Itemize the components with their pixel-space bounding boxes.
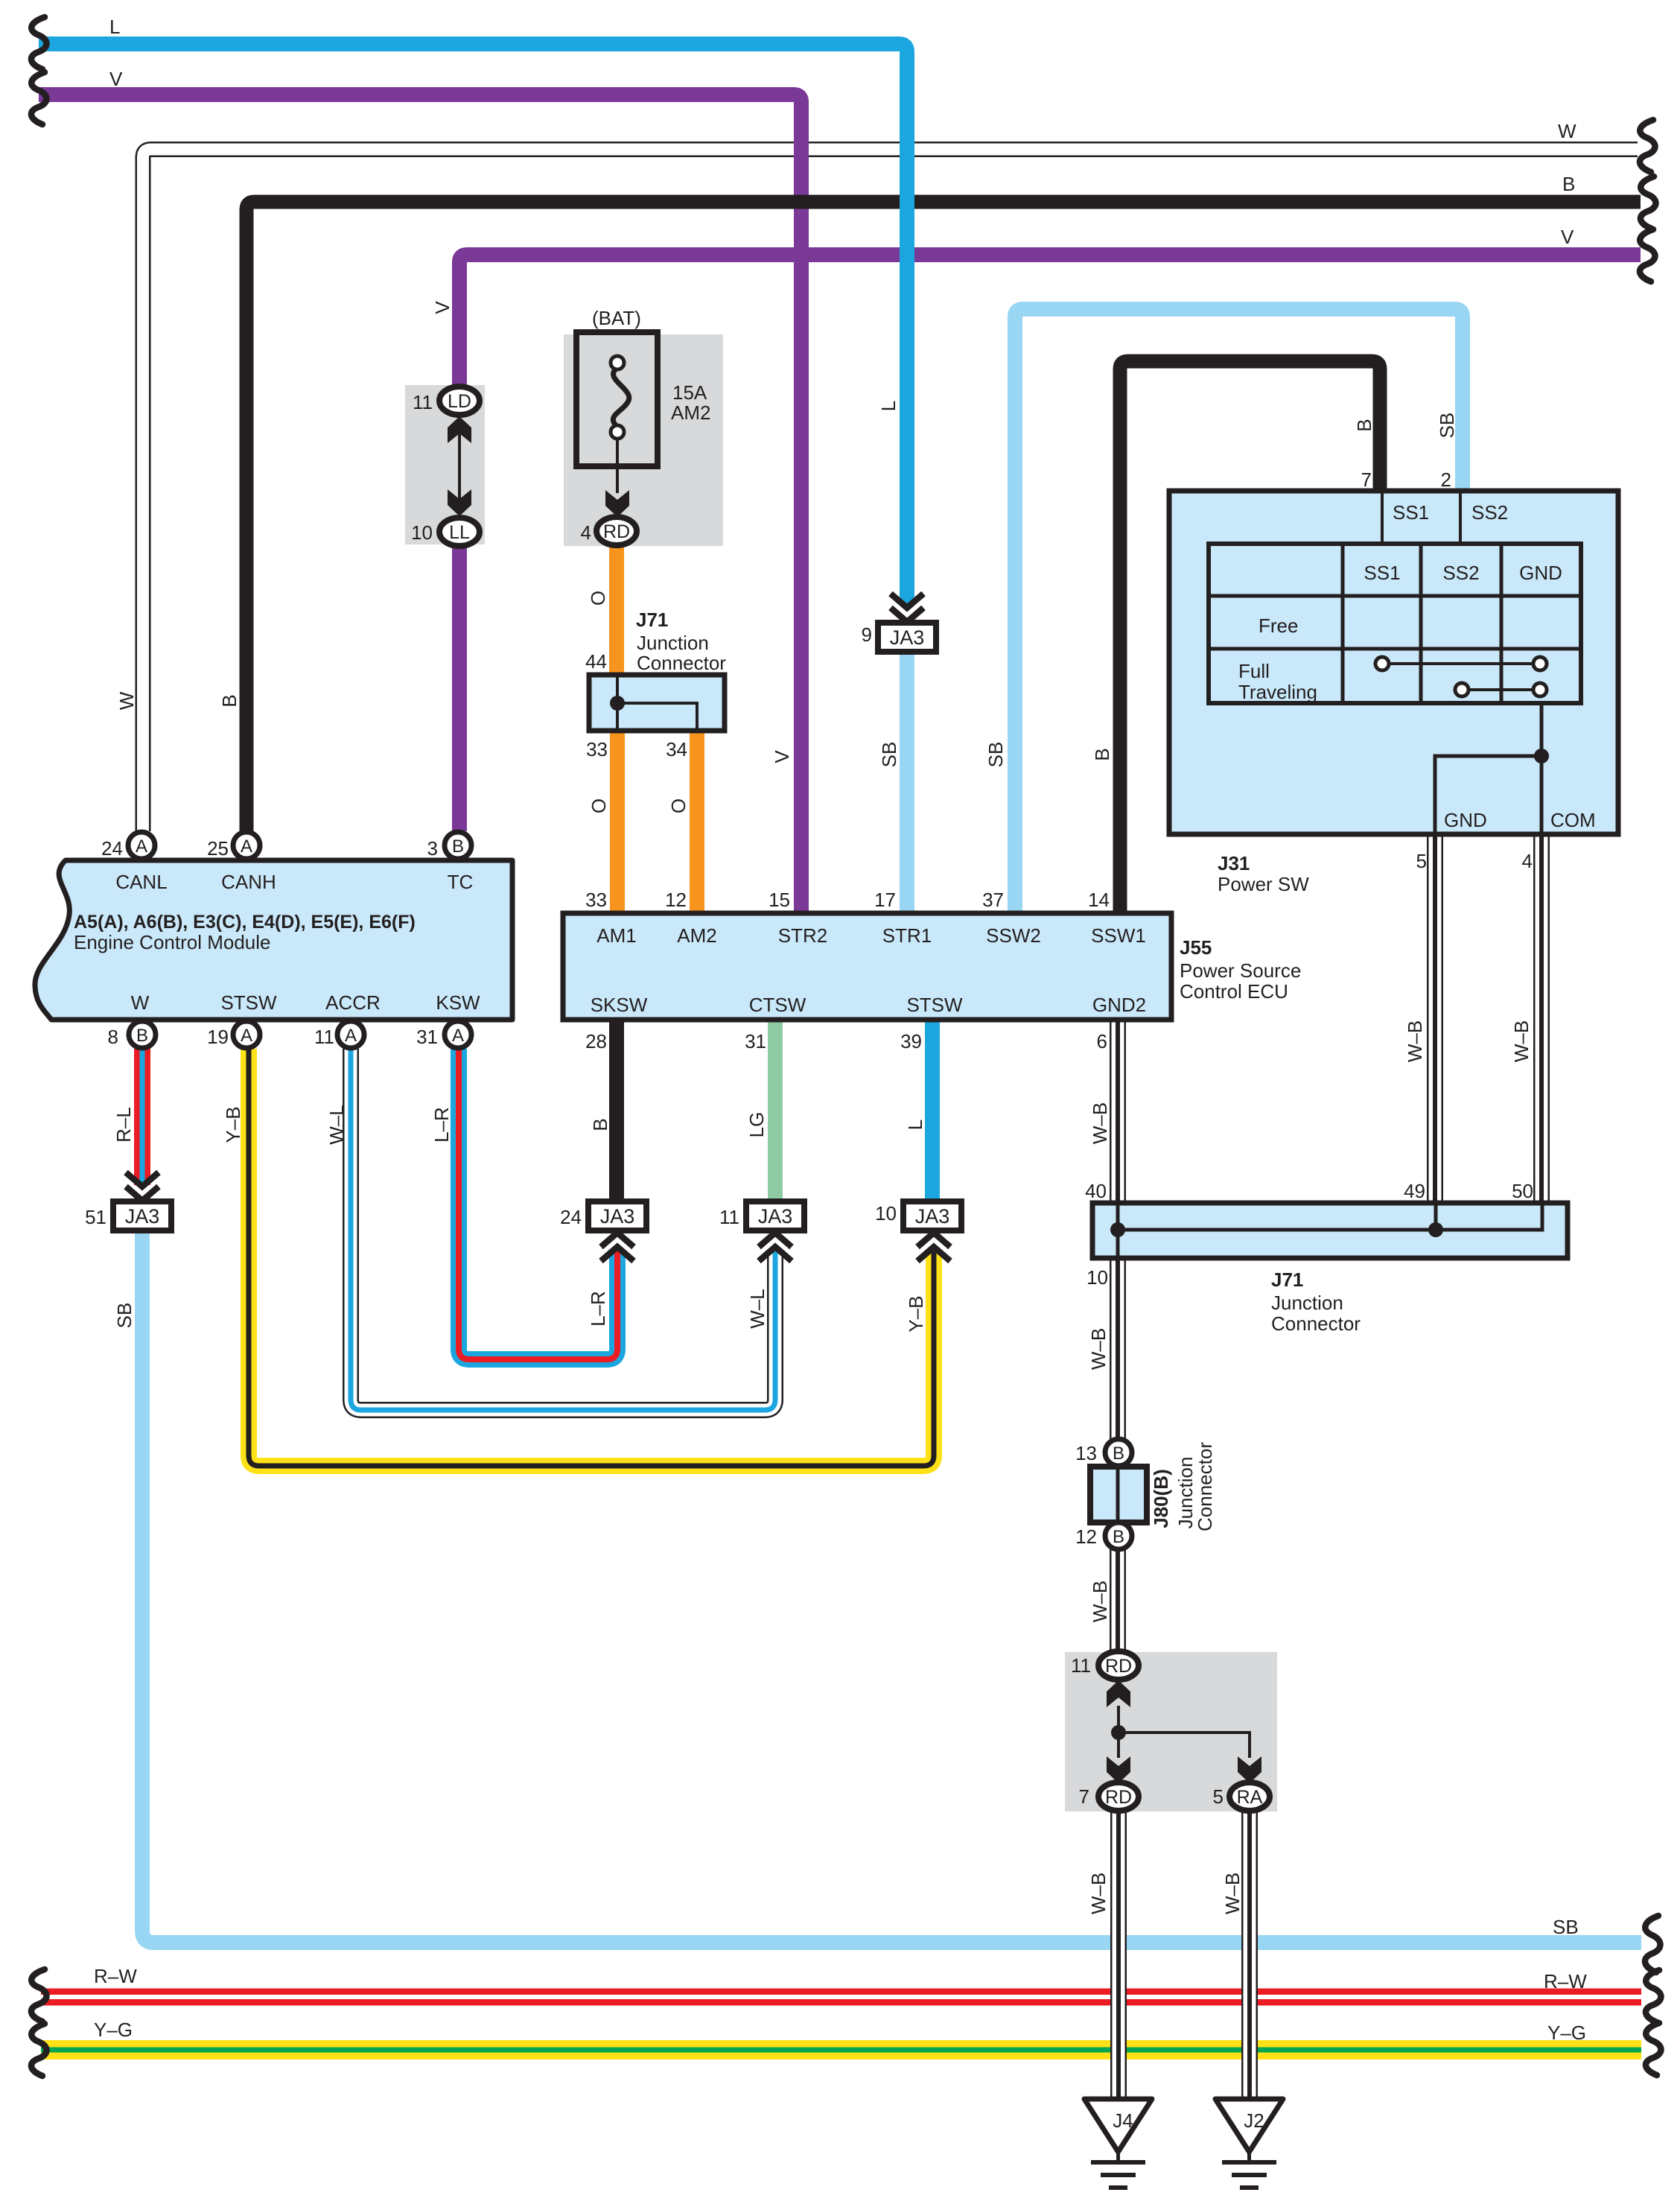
J31 internal wire to GND: [1435, 756, 1541, 834]
svg-text:31: 31: [745, 1030, 766, 1052]
svg-text:RA: RA: [1237, 1787, 1263, 1808]
svg-text:O: O: [587, 591, 609, 606]
svg-text:11: 11: [413, 391, 433, 413]
svg-text:A: A: [241, 1026, 252, 1046]
connector JA3 51 box: [113, 1201, 171, 1230]
ground J4 hatching: [1116, 2152, 1120, 2162]
arrow down to RD 7: [1107, 1756, 1130, 1783]
arrow up to RD 11: [1107, 1680, 1130, 1707]
wire W-B RD 7 to ground J4: [1110, 1811, 1127, 2099]
wire V purple horizontal to right break and down to LD: [459, 255, 1641, 388]
svg-text:SS2: SS2: [1471, 501, 1508, 524]
svg-text:Control ECU: Control ECU: [1180, 980, 1288, 1003]
svg-text:Power SW: Power SW: [1218, 873, 1309, 895]
wire O orange J71 pin 34 to J55 AM2: [690, 732, 704, 912]
arrow into JA3 11: [759, 1247, 792, 1261]
svg-text:R–W: R–W: [1544, 1970, 1587, 1992]
svg-text:SS2: SS2: [1442, 562, 1479, 584]
J31 pin stub SS1: [1381, 493, 1384, 546]
svg-text:CANH: CANH: [221, 871, 276, 893]
svg-text:7: 7: [1361, 469, 1372, 491]
J31 contact line SS2-GND with open circles: [1462, 688, 1540, 691]
svg-text:14: 14: [1088, 889, 1110, 911]
svg-text:V: V: [1561, 226, 1574, 248]
svg-text:39: 39: [900, 1030, 922, 1052]
ECM pin 24 A: [128, 832, 155, 859]
svg-text:13: 13: [1075, 1442, 1097, 1464]
svg-text:B: B: [1113, 1444, 1124, 1464]
svg-text:RD: RD: [1105, 1656, 1132, 1677]
arrow into JA3 10: [917, 1247, 950, 1261]
connector JA3 9 box: [878, 623, 936, 652]
wire Y-B loop ECM pin 19 to JA3 10 arrow: [249, 1049, 934, 1466]
svg-text:CTSW: CTSW: [749, 994, 806, 1016]
svg-text:6: 6: [1097, 1030, 1107, 1052]
svg-text:W–B: W–B: [1221, 1873, 1244, 1914]
arrow up to LD: [448, 416, 471, 443]
svg-text:W: W: [131, 991, 150, 1014]
svg-text:15: 15: [769, 889, 790, 911]
svg-text:W–B: W–B: [1510, 1020, 1533, 1062]
svg-text:L–R: L–R: [587, 1291, 609, 1327]
svg-text:O: O: [588, 798, 610, 813]
wire W-B J71 pin 10 down through J80(B) to RD 11: [1110, 1259, 1126, 1651]
svg-text:Power Source: Power Source: [1180, 959, 1301, 982]
ECM pin 11 A: [337, 1021, 364, 1048]
svg-text:CANL: CANL: [115, 871, 167, 893]
svg-text:B: B: [1353, 419, 1375, 431]
break mark V left: [31, 72, 47, 124]
svg-text:49: 49: [1404, 1180, 1425, 1202]
arrow into JA3 9: [891, 594, 923, 608]
svg-text:V: V: [431, 301, 454, 314]
svg-text:4: 4: [1522, 850, 1533, 872]
connector JA3 10 box: [903, 1201, 961, 1230]
ECM pin 31 A: [445, 1021, 471, 1048]
svg-text:A: A: [345, 1026, 357, 1046]
svg-text:25: 25: [207, 837, 229, 860]
svg-text:J2: J2: [1244, 2109, 1264, 2132]
connector JA3 11 box: [746, 1201, 804, 1230]
fuse output arrow: [605, 490, 629, 517]
svg-text:Connector: Connector: [637, 652, 726, 674]
wire W-B J31 GND pin 5 to J71 pin 49: [1427, 836, 1443, 1202]
wire W-B J55 GND2 to J71 pin 40: [1110, 1021, 1126, 1202]
svg-text:W–B: W–B: [1087, 1873, 1110, 1914]
svg-text:W–B: W–B: [1089, 1581, 1111, 1622]
wire L blue J55 STSW to JA3 10: [925, 1021, 940, 1201]
wire R-L ECM pin 8 to JA3 51 arrow: [134, 1049, 150, 1185]
svg-text:L: L: [904, 1120, 926, 1130]
wire W-B RA 5 to ground J2: [1241, 1811, 1258, 2099]
svg-text:SB: SB: [878, 742, 900, 768]
svg-text:51: 51: [85, 1206, 106, 1228]
J31 internal wire to COM: [1540, 703, 1544, 834]
break mark Y-G right: [1646, 2023, 1661, 2075]
wire W-B J31 COM pin 4 to J71 pin 50: [1533, 836, 1550, 1202]
terminal oval RD 11: [1098, 1651, 1139, 1680]
svg-text:L: L: [877, 401, 900, 411]
svg-text:W: W: [1558, 120, 1576, 142]
svg-text:SB: SB: [984, 742, 1007, 768]
J80 pin 13 B: [1105, 1439, 1132, 1466]
svg-text:GND: GND: [1519, 562, 1562, 584]
svg-text:KSW: KSW: [436, 991, 480, 1014]
wire O orange J71 pin 33 to J55 AM1: [610, 732, 625, 912]
J71 top internal junction dot: [610, 696, 625, 711]
svg-text:B: B: [452, 836, 464, 857]
break mark R-W right: [1646, 1970, 1661, 2022]
svg-text:W–L: W–L: [325, 1105, 348, 1144]
wire LG J55 CTSW to JA3 11: [768, 1021, 783, 1201]
shield internal wire branch to RA: [1119, 1733, 1250, 1758]
break mark SB right: [1645, 1916, 1661, 1972]
svg-text:LD: LD: [448, 391, 471, 412]
arrow into JA3 24: [601, 1247, 634, 1261]
ECM pin 8 B: [129, 1021, 156, 1048]
svg-text:A: A: [241, 836, 252, 857]
svg-text:W–L: W–L: [746, 1289, 769, 1328]
svg-text:Junction: Junction: [637, 632, 709, 654]
svg-text:JA3: JA3: [915, 1205, 950, 1228]
svg-text:SSW1: SSW1: [1091, 924, 1146, 947]
svg-text:34: 34: [666, 738, 687, 760]
arrow down to RA 5: [1238, 1756, 1261, 1783]
ground J2 hatching: [1247, 2152, 1251, 2162]
svg-text:SB: SB: [1436, 413, 1458, 439]
svg-text:W–B: W–B: [1404, 1020, 1426, 1062]
svg-text:10: 10: [1086, 1266, 1108, 1289]
svg-text:10: 10: [875, 1202, 897, 1225]
svg-text:L: L: [109, 16, 120, 38]
svg-text:5: 5: [1416, 850, 1427, 872]
box border redraw J55: [563, 913, 1171, 1020]
J71 bottom internal wire pin49 stub: [1434, 1205, 1438, 1230]
ground J2 triangle: [1215, 2099, 1283, 2152]
svg-text:STSW: STSW: [906, 994, 963, 1016]
J71 bottom junction dot pin49: [1428, 1222, 1443, 1237]
svg-text:SS1: SS1: [1364, 562, 1400, 584]
svg-text:SS1: SS1: [1393, 501, 1429, 524]
J71 junction connector box top: [589, 675, 725, 731]
terminal oval RD 4: [596, 517, 637, 545]
svg-text:17: 17: [874, 889, 896, 911]
svg-text:SB: SB: [113, 1303, 136, 1329]
shield internal junction dot: [1111, 1725, 1126, 1740]
svg-text:LL: LL: [449, 522, 470, 543]
terminal oval RD 7: [1098, 1782, 1139, 1811]
svg-text:J71: J71: [1271, 1268, 1303, 1291]
J71 top internal wire to 34: [617, 703, 697, 728]
svg-text:12: 12: [665, 889, 687, 911]
svg-text:J71: J71: [636, 609, 668, 631]
svg-text:8: 8: [108, 1026, 118, 1048]
J71 top internal wire 44-33: [616, 677, 619, 728]
svg-text:10: 10: [411, 521, 433, 544]
ECM Engine Control Module box: [35, 860, 512, 1020]
svg-text:33: 33: [585, 889, 607, 911]
J71 junction connector box bottom: [1092, 1203, 1568, 1258]
J31 pin stub SS2: [1459, 493, 1462, 546]
svg-text:Y–G: Y–G: [94, 2019, 133, 2041]
svg-text:RD: RD: [1105, 1787, 1132, 1808]
fuse AM2 grey background: [564, 334, 723, 546]
svg-text:L–R: L–R: [430, 1107, 453, 1143]
fuse output lead to RD 4: [616, 439, 619, 493]
J31 internal junction dot: [1534, 749, 1549, 763]
svg-text:11: 11: [1071, 1654, 1091, 1677]
svg-text:STR2: STR2: [778, 924, 827, 947]
svg-text:J80(B): J80(B): [1150, 1469, 1172, 1528]
shield internal wire down: [1117, 1706, 1120, 1758]
svg-text:JA3: JA3: [758, 1205, 793, 1228]
svg-text:33: 33: [586, 738, 608, 760]
svg-text:B: B: [1562, 173, 1575, 195]
terminal oval RA 5: [1229, 1782, 1270, 1811]
ground J4 triangle: [1084, 2099, 1152, 2152]
wire SB hat from J55 SSW2 up over to J31 SS2 pin 2: [1015, 309, 1463, 912]
svg-text:V: V: [771, 750, 793, 763]
wire V purple from LL to ECM pin 3 TC: [452, 544, 467, 831]
wire B hat from J55 SSW1 up over to J31 SS1 pin 7: [1120, 361, 1380, 912]
svg-text:JA3: JA3: [600, 1205, 635, 1228]
break mark V right: [1640, 229, 1655, 282]
svg-text:J55: J55: [1180, 936, 1212, 959]
svg-text:37: 37: [982, 889, 1004, 911]
svg-text:Connector: Connector: [1271, 1312, 1361, 1335]
LD-LL connecting line: [458, 417, 461, 515]
svg-text:RD: RD: [603, 521, 630, 542]
svg-text:Y–B: Y–B: [222, 1106, 244, 1143]
J71 bottom internal wire pin40-pin10: [1116, 1205, 1120, 1256]
svg-text:STR1: STR1: [882, 924, 932, 947]
wire R-W horizontal at bottom: [41, 1989, 1641, 2006]
svg-text:AM2: AM2: [671, 401, 710, 424]
svg-text:15A: 15A: [672, 381, 707, 404]
wire W white from right break to ECM pin 24: [143, 150, 1638, 832]
svg-text:JA3: JA3: [890, 626, 925, 649]
wire Y-G horizontal at bottom: [41, 2040, 1641, 2060]
J80(B) junction connector box: [1090, 1467, 1147, 1522]
J31 contact line SS1-GND with open circles: [1382, 662, 1540, 665]
ECM pin 19 A: [233, 1021, 260, 1048]
svg-text:(BAT): (BAT): [592, 307, 641, 329]
svg-text:GND: GND: [1444, 809, 1487, 831]
terminal oval LL 10: [439, 518, 480, 546]
break mark R-W left: [31, 1969, 47, 2022]
svg-text:TC: TC: [448, 871, 474, 893]
svg-text:40: 40: [1085, 1180, 1107, 1202]
svg-text:STSW: STSW: [220, 991, 277, 1014]
svg-text:Traveling: Traveling: [1238, 681, 1317, 703]
svg-text:W: W: [115, 691, 138, 710]
svg-text:Free: Free: [1259, 615, 1298, 637]
svg-text:A5(A), A6(B), E3(C), E4(D), E5: A5(A), A6(B), E3(C), E4(D), E5(E), E6(F): [74, 912, 416, 933]
connector shield grey background for LD/LL: [405, 385, 485, 544]
svg-text:Y–G: Y–G: [1547, 2022, 1586, 2044]
svg-text:11: 11: [719, 1206, 739, 1228]
break mark B right: [1641, 177, 1656, 229]
svg-text:24: 24: [101, 837, 123, 860]
J71 bottom junction dot pin40: [1110, 1222, 1125, 1237]
svg-text:7: 7: [1079, 1785, 1089, 1808]
svg-text:ACCR: ACCR: [325, 991, 381, 1014]
terminal oval LD 11: [439, 387, 480, 415]
J31 switch state table: [1209, 544, 1581, 703]
ECM pin 25 A: [233, 832, 260, 859]
svg-text:5: 5: [1213, 1785, 1224, 1808]
box border redraw J31: [1169, 491, 1618, 834]
wire SB from JA3 51 down and right to break: [142, 1232, 1641, 1943]
wire O orange fuse to J71 pin 44: [609, 545, 624, 673]
svg-text:AM2: AM2: [677, 924, 716, 947]
svg-text:B: B: [1113, 1527, 1124, 1547]
svg-text:2: 2: [1441, 469, 1451, 491]
arrow into JA3 51: [126, 1172, 159, 1187]
wire B black J55 SKSW to JA3 24: [609, 1021, 624, 1201]
svg-text:J4: J4: [1113, 2109, 1133, 2132]
break mark L left: [31, 17, 47, 69]
svg-text:A: A: [452, 1026, 464, 1046]
svg-text:W–B: W–B: [1087, 1328, 1110, 1370]
J31 Power SW box: [1169, 491, 1618, 834]
svg-text:B: B: [136, 1026, 148, 1046]
svg-text:SKSW: SKSW: [591, 994, 648, 1016]
svg-text:R–L: R–L: [112, 1107, 135, 1143]
break mark Y-G left: [31, 2024, 47, 2076]
svg-text:44: 44: [585, 650, 607, 673]
fuse 15A AM2 rectangle: [576, 332, 658, 466]
svg-text:B: B: [218, 694, 241, 707]
svg-text:W–B: W–B: [1089, 1102, 1111, 1144]
svg-text:B: B: [1091, 748, 1113, 760]
svg-text:Connector: Connector: [1194, 1442, 1216, 1531]
fuse element S-curve: [613, 368, 629, 427]
break mark W right: [1640, 120, 1655, 172]
svg-text:V: V: [109, 68, 123, 90]
svg-text:4: 4: [581, 521, 591, 544]
wire B black horizontal to right break and down to ECM pin 25 CANH: [246, 202, 1641, 831]
svg-text:11: 11: [314, 1026, 334, 1048]
arrow down to LL: [448, 489, 471, 516]
svg-text:AM1: AM1: [596, 924, 636, 947]
J55 Power Source Control ECU box: [563, 913, 1171, 1020]
svg-text:COM: COM: [1550, 809, 1596, 831]
svg-text:A: A: [136, 836, 147, 857]
svg-text:R–W: R–W: [94, 1965, 137, 1987]
svg-text:9: 9: [862, 623, 872, 646]
svg-text:B: B: [589, 1118, 611, 1131]
svg-text:J31: J31: [1218, 852, 1250, 874]
svg-text:Full: Full: [1238, 660, 1270, 682]
svg-text:19: 19: [207, 1026, 229, 1048]
svg-text:Y–B: Y–B: [905, 1295, 927, 1332]
svg-text:O: O: [667, 798, 690, 813]
J80 pin 12 B: [1105, 1522, 1132, 1549]
wire SB from JA3 9 to J55 STR1: [900, 652, 914, 912]
svg-text:3: 3: [427, 837, 438, 860]
svg-text:LG: LG: [745, 1112, 768, 1138]
svg-text:Engine Control Module: Engine Control Module: [74, 931, 271, 953]
svg-text:SSW2: SSW2: [986, 924, 1041, 947]
connector JA3 24 box: [588, 1201, 646, 1230]
svg-text:50: 50: [1512, 1180, 1533, 1202]
connector shield grey background for RD/RA: [1065, 1652, 1277, 1811]
svg-text:31: 31: [416, 1026, 438, 1048]
wire L-R loop ECM pin 31 to JA3 24 arrow: [459, 1049, 617, 1359]
svg-text:JA3: JA3: [125, 1205, 160, 1228]
ECM pin 3 B: [445, 832, 471, 859]
wire L blue top-left down to JA3 9 arrow: [39, 44, 907, 605]
svg-text:Junction: Junction: [1271, 1292, 1343, 1314]
svg-text:GND2: GND2: [1092, 994, 1146, 1016]
wire W-L loop ECM pin 11 to JA3 11 arrow: [351, 1049, 775, 1410]
wire V purple top-left to J55 STR2: [39, 95, 801, 912]
svg-text:12: 12: [1075, 1525, 1097, 1548]
svg-text:28: 28: [585, 1030, 607, 1052]
svg-text:24: 24: [560, 1206, 582, 1228]
svg-text:SB: SB: [1553, 1916, 1579, 1938]
J71 bottom internal bus wire to pin50: [1118, 1205, 1542, 1230]
